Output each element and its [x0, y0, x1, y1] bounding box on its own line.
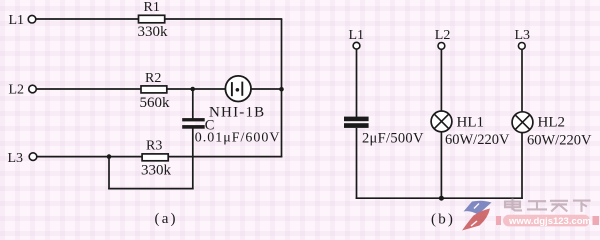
wire HL1 down to bottom rail	[440, 132, 442, 199]
svg-text:NHI-1B: NHI-1B	[209, 104, 265, 120]
wire neon lamp to right rail	[251, 88, 282, 90]
junction HL1 to bottom rail	[439, 196, 444, 201]
watermark banner www.dgjs123.com	[496, 215, 599, 227]
junction on L3 line	[107, 154, 112, 159]
svg-text:HL2: HL2	[538, 115, 566, 131]
svg-text:HL1: HL1	[457, 114, 485, 130]
node L3	[8, 151, 37, 166]
wire bypass up to L3 junction	[108, 157, 110, 190]
wire L2 down to lamp HL1	[440, 49, 442, 111]
svg-text:60W/220V: 60W/220V	[527, 132, 592, 148]
wire L1 down to capacitor	[356, 49, 358, 117]
svg-text:www.dgjs123.com: www.dgjs123.com	[508, 216, 591, 227]
wire L3 down to lamp HL2	[521, 49, 523, 112]
svg-text:2μF/500V: 2μF/500V	[362, 130, 424, 146]
svg-text:L1: L1	[349, 28, 365, 43]
wire junction down to capacitor C	[192, 89, 194, 119]
wire L3 terminal to R3	[37, 156, 142, 158]
lamp HL1	[431, 111, 452, 132]
svg-text:0.01μF/600V: 0.01μF/600V	[195, 130, 281, 145]
wire capacitor down to bottom rail	[356, 128, 358, 199]
resistor R2	[141, 86, 167, 93]
wire bottom rail (b)	[356, 197, 523, 199]
svg-text:330k: 330k	[138, 24, 169, 40]
wire R2 to neon lamp	[167, 88, 226, 90]
node L2	[9, 82, 37, 97]
capacitor C	[182, 118, 205, 129]
resistor R3	[142, 154, 168, 161]
wire capacitor down	[192, 129, 194, 190]
wire right rail	[281, 19, 283, 157]
svg-text:(b): (b)	[431, 211, 455, 227]
svg-text:R3: R3	[146, 138, 162, 153]
resistor R1	[139, 15, 165, 22]
svg-text:L2: L2	[9, 82, 25, 97]
lamp HL2	[512, 112, 533, 133]
node L1 (b)	[349, 28, 365, 49]
svg-text:L3: L3	[515, 28, 531, 43]
junction neon to rail	[279, 87, 284, 92]
svg-text:R1: R1	[144, 0, 160, 15]
watermark text dian gong tian xia	[505, 200, 590, 211]
svg-text:L3: L3	[8, 151, 24, 166]
node L3 (b)	[515, 28, 531, 49]
wire R1 to right rail	[165, 18, 283, 20]
wire HL2 down to bottom rail	[521, 133, 523, 199]
svg-text:330k: 330k	[141, 163, 172, 179]
neon lamp NHI-1B	[225, 76, 251, 102]
wire bottom bypass horizontal	[108, 188, 193, 190]
svg-text:60W/220V: 60W/220V	[445, 132, 510, 148]
wire R3 to right rail	[168, 156, 282, 158]
wire L2 terminal to R2	[36, 88, 141, 90]
svg-text:L2: L2	[435, 28, 451, 43]
svg-text:R2: R2	[145, 71, 161, 86]
svg-text:560k: 560k	[140, 95, 171, 111]
wire L1 terminal to R1	[36, 18, 139, 20]
junction capacitor tap on L2 line	[190, 87, 195, 92]
svg-text:L1: L1	[9, 13, 25, 28]
capacitor 2uF	[344, 117, 369, 128]
node L1	[9, 13, 36, 28]
watermark logo swoosh	[462, 201, 492, 231]
node L2 (b)	[435, 28, 451, 49]
svg-text:(a): (a)	[155, 211, 178, 227]
